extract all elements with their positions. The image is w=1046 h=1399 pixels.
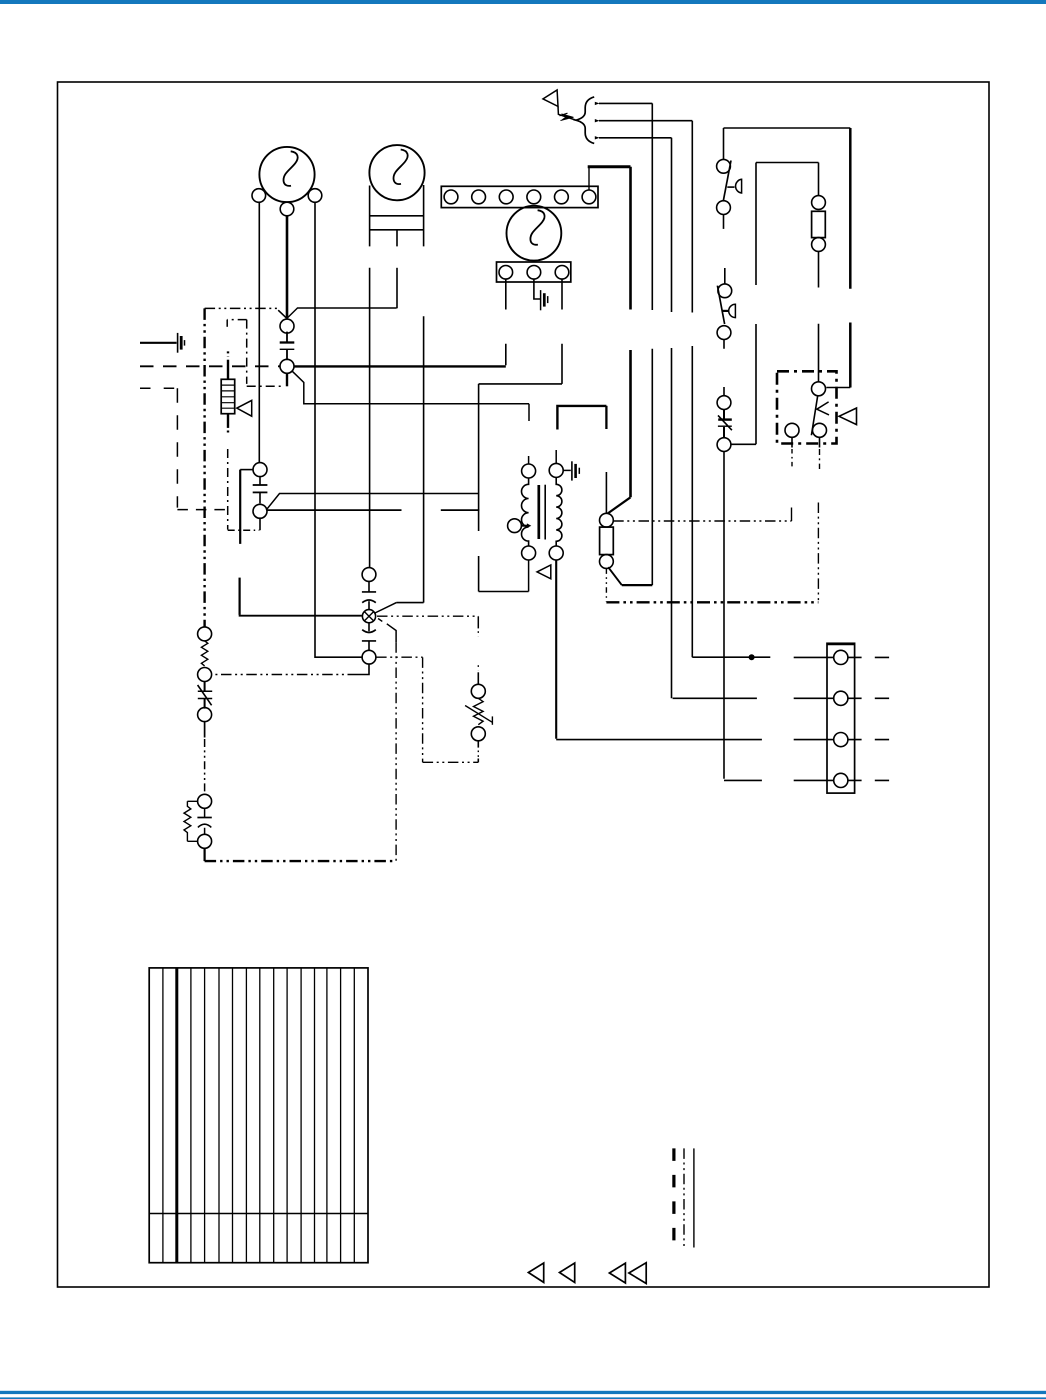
terminal block TB3 (vertical) bbox=[827, 643, 855, 793]
contact A (limit control) bbox=[280, 319, 295, 386]
legend sample: dash-dot-dot line bbox=[683, 1148, 685, 1246]
flag triangle T2 bbox=[560, 1263, 575, 1282]
ground GND2 bbox=[541, 290, 548, 310]
wire M2 right side down bbox=[396, 316, 423, 602]
flag note 2 bbox=[237, 400, 252, 416]
wire L1 to fuse branch bbox=[599, 103, 652, 585]
wire nut lead bbox=[558, 106, 576, 120]
dashed enclosure left bbox=[140, 387, 177, 389]
wire link to transformer primary bottom bbox=[479, 591, 529, 593]
dash-dot lead below anticipator bbox=[227, 449, 229, 530]
heavy feed wire from TB1 term 6 bbox=[588, 168, 590, 191]
wire nut twist bbox=[562, 114, 574, 120]
diagonal into fuse top bbox=[608, 497, 631, 513]
wire feed from M2 center into contact bbox=[287, 308, 397, 318]
flag note 4 bbox=[839, 408, 857, 425]
lamp bottom drop to dashed return bbox=[358, 664, 369, 675]
motor M3 (condenser fan motor) bbox=[507, 206, 562, 261]
wire L1 jog into fuse bottom bbox=[622, 584, 653, 586]
arrowhead bbox=[278, 310, 287, 318]
arrow tick L2 bbox=[595, 119, 600, 122]
ground GND1 left bbox=[140, 333, 185, 353]
flag triangle T3 bbox=[609, 1263, 625, 1283]
inner dash-dot box around heat anticipator bbox=[227, 320, 283, 387]
switch B lower branch wire bbox=[267, 509, 479, 511]
switch B (door interlock) bbox=[240, 463, 267, 544]
junction node dot bbox=[749, 654, 755, 660]
wire M1 terminal 3 down to indicator chain bbox=[315, 202, 362, 657]
wire across to switch column bbox=[228, 529, 260, 531]
relay K1 (dash-dot enclosure) bbox=[777, 371, 837, 443]
flag note 1 (field wiring triangle) bbox=[543, 90, 558, 106]
fuse F1 column bbox=[600, 406, 614, 569]
wire TB2-1 down to heavy bus bbox=[505, 279, 507, 365]
transformer secondary bottom lead to terminal row 3 bbox=[555, 560, 557, 739]
dash link from lamp to riser bbox=[378, 619, 382, 622]
wire L3 to terminal row 2 column bbox=[599, 138, 672, 699]
top blue header rule bbox=[0, 0, 1046, 4]
wire node down from TB2-3 run bbox=[478, 384, 480, 592]
terminal row 3 wiring bbox=[556, 739, 889, 741]
wire M1 terminal 1 down to switch bbox=[258, 202, 260, 462]
pressure switch S1 top bbox=[717, 128, 742, 229]
transformer primary top lead bbox=[528, 404, 530, 464]
relay K1 contact bbox=[785, 382, 829, 448]
relay stub leads (dotted) bbox=[791, 449, 793, 468]
dashed return to pressure control bbox=[212, 674, 359, 676]
wire M2 center to contact feed bbox=[396, 268, 398, 309]
transformer T1 bbox=[508, 463, 564, 560]
legend sample: dashed line bbox=[672, 1148, 675, 1244]
lamp dash-dot-dot to resistor column bbox=[377, 615, 478, 617]
heavy jog feeding fuse + secondary top bbox=[557, 406, 606, 430]
dash-dot-dot loop to adjustable resistor bbox=[422, 657, 424, 762]
heavy right bus bbox=[849, 128, 852, 388]
inner loop wire bbox=[731, 163, 818, 445]
terminal strip TB1 (6 terminals) bbox=[441, 186, 598, 207]
relay right lead dash-dot-dot down bbox=[817, 503, 819, 602]
heavy control dash-dot bus bbox=[606, 601, 818, 603]
staircase wire from contact to transformer bbox=[292, 371, 529, 404]
dash lead from fuse bottom bbox=[605, 568, 607, 601]
thermal link TL1 bbox=[717, 396, 732, 452]
dash-dot-dot riser right of lamp bbox=[395, 642, 397, 861]
bottom blue rule upper bbox=[0, 1391, 1046, 1394]
dash-dot-dot link down bbox=[204, 739, 206, 795]
fuse link F2 top right bbox=[812, 163, 826, 382]
wire M2 left side down to lamp plug bbox=[369, 268, 371, 568]
lamp wire to M2 right leg bbox=[375, 603, 397, 613]
wire L2 to junction column bbox=[599, 121, 692, 658]
indicator lamp DS1 with plug connector bbox=[362, 568, 376, 665]
wire TB2-2 to chassis ground bbox=[534, 279, 540, 299]
dash-dot-dot trunk (left) bbox=[203, 308, 205, 627]
arrow tick L1 bbox=[595, 102, 600, 105]
transformer primary bottom lead bbox=[528, 560, 530, 592]
terminal row 1 wiring bbox=[692, 656, 889, 658]
control dash line to relay coil bbox=[613, 520, 791, 522]
ground GND3 at secondary bbox=[563, 461, 579, 480]
wire TB2-3 down and across bbox=[479, 279, 562, 384]
heat anticipator R1 bbox=[221, 351, 235, 435]
arrow tick L3 bbox=[595, 136, 600, 139]
pressure control PC1 with bypass resistor bbox=[184, 794, 212, 861]
flag triangle T4 bbox=[629, 1263, 646, 1284]
bottom blue rule lower bbox=[0, 1397, 1046, 1399]
flag note 3 bbox=[537, 565, 551, 579]
legend sample: solid line bbox=[693, 1148, 695, 1247]
heavy dash-dot-dot return bottom bbox=[205, 860, 397, 862]
wire top loop to heavy right bus bbox=[724, 127, 851, 129]
pressure switch S2 bbox=[717, 268, 735, 396]
heavy bus from contact A to TB2-1 bbox=[294, 365, 506, 367]
wiring table block bbox=[149, 968, 368, 1263]
wire M1 center lead (heavy) with arrowhead bbox=[286, 216, 289, 318]
wire TL1 down to terminal row 4 bbox=[723, 452, 725, 779]
motor M1 (blower motor) bbox=[252, 147, 322, 216]
terminal strip TB2 (3 terminals) bbox=[497, 262, 571, 282]
transformer secondary top lead bbox=[555, 450, 557, 464]
switch B upper branch wire bbox=[266, 494, 478, 511]
dashed thermostat wire to contact A bbox=[140, 365, 280, 367]
flag triangle T1 bbox=[528, 1263, 543, 1282]
dash-dot-dot branch top bbox=[205, 307, 277, 309]
motor M2 (induced draft motor) bbox=[369, 145, 424, 246]
parallel leg down to lamp bbox=[239, 578, 241, 615]
terminal row 4 wiring bbox=[724, 779, 889, 781]
adjustable resistor R2 bbox=[465, 616, 492, 762]
brace for field supply wires bbox=[576, 97, 594, 143]
thermostat contact TH1 with resistor bbox=[198, 627, 213, 738]
terminal row 2 wiring bbox=[673, 697, 890, 699]
page frame border bbox=[58, 82, 990, 1287]
lamp bottom dash-dot-dot right bbox=[376, 656, 423, 658]
